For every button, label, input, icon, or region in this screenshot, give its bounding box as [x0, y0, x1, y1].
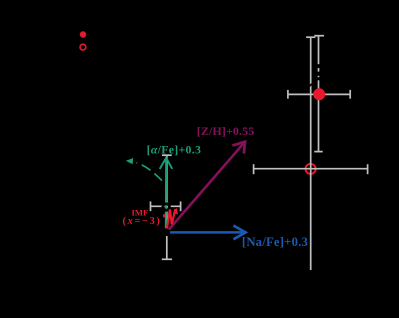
legend marker filled red circle: [80, 31, 86, 37]
wire P3 v-bar bottom cap: [162, 258, 172, 260]
arrow [Na/Fe]+0.3 (blue, right): [170, 226, 246, 240]
wire P3 vertical error bar: [166, 155, 168, 259]
wire P2 horizontal error bar: [254, 168, 368, 170]
wire P2 h-bar right cap: [367, 164, 369, 174]
node P2 error bars (gray): [254, 37, 368, 270]
svg-text:[α/Fe]+0.3: [α/Fe]+0.3: [147, 143, 202, 157]
arrow [Z/H]+0.55 (magenta, diagonal): [169, 142, 245, 230]
marker P3 (black open circle, occluding): [163, 204, 169, 210]
black text occlusion over P1 vertical bar: [309, 64, 323, 87]
legend marker open red circle: [80, 44, 86, 50]
svg-text:(x=−3): (x=−3): [122, 216, 161, 227]
node P3 error bars (gray): [151, 155, 181, 259]
wire P3 v-bar top cap: [162, 154, 172, 156]
red tick fragment: [163, 214, 165, 217]
wire P3 h-bar left cap: [150, 201, 152, 211]
marker P2 open red circle: [306, 164, 316, 174]
wire P3 horizontal error bar: [151, 205, 181, 207]
wire P3 h-bar right cap: [180, 201, 182, 211]
wire P2 h-bar left cap: [253, 164, 255, 174]
svg-text:[Z/H]+0.55: [Z/H]+0.55: [197, 124, 255, 138]
wire P1 h-bar right cap: [349, 90, 351, 99]
wire P1 vertical error bar: [318, 36, 320, 152]
arrow [alpha/Fe]+0.3 (green, up): [160, 158, 173, 229]
arrowhead IMF: [173, 208, 178, 215]
node P1 error bars (gray): [288, 36, 350, 152]
wire P1 horizontal error bar: [288, 93, 350, 95]
wire P1 h-bar left cap: [287, 90, 289, 99]
wire P1 v-bar bottom cap: [314, 151, 322, 153]
wire P2 v-bar top cap: [306, 36, 315, 38]
svg-text:[Na/Fe]+0.3: [Na/Fe]+0.3: [242, 235, 308, 249]
arrow IMF (red zigzag): [167, 209, 176, 229]
wire P2 vertical error bar: [310, 37, 312, 270]
marker origin (black, occluding): [163, 228, 172, 237]
black text occlusion over P2 vertical bar: [309, 82, 314, 87]
arrow dashed (green, curved up-left): [126, 158, 162, 181]
wire P1 v-bar top cap: [314, 35, 324, 37]
marker P1 filled red circle: [313, 88, 325, 100]
